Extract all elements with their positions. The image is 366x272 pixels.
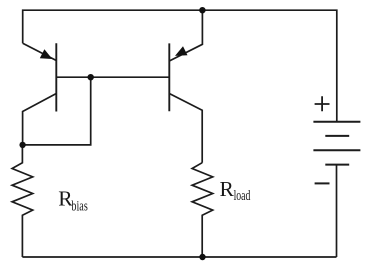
svg-text:R: R — [220, 177, 235, 201]
svg-text:load: load — [234, 188, 251, 204]
svg-text:bias: bias — [71, 199, 88, 215]
